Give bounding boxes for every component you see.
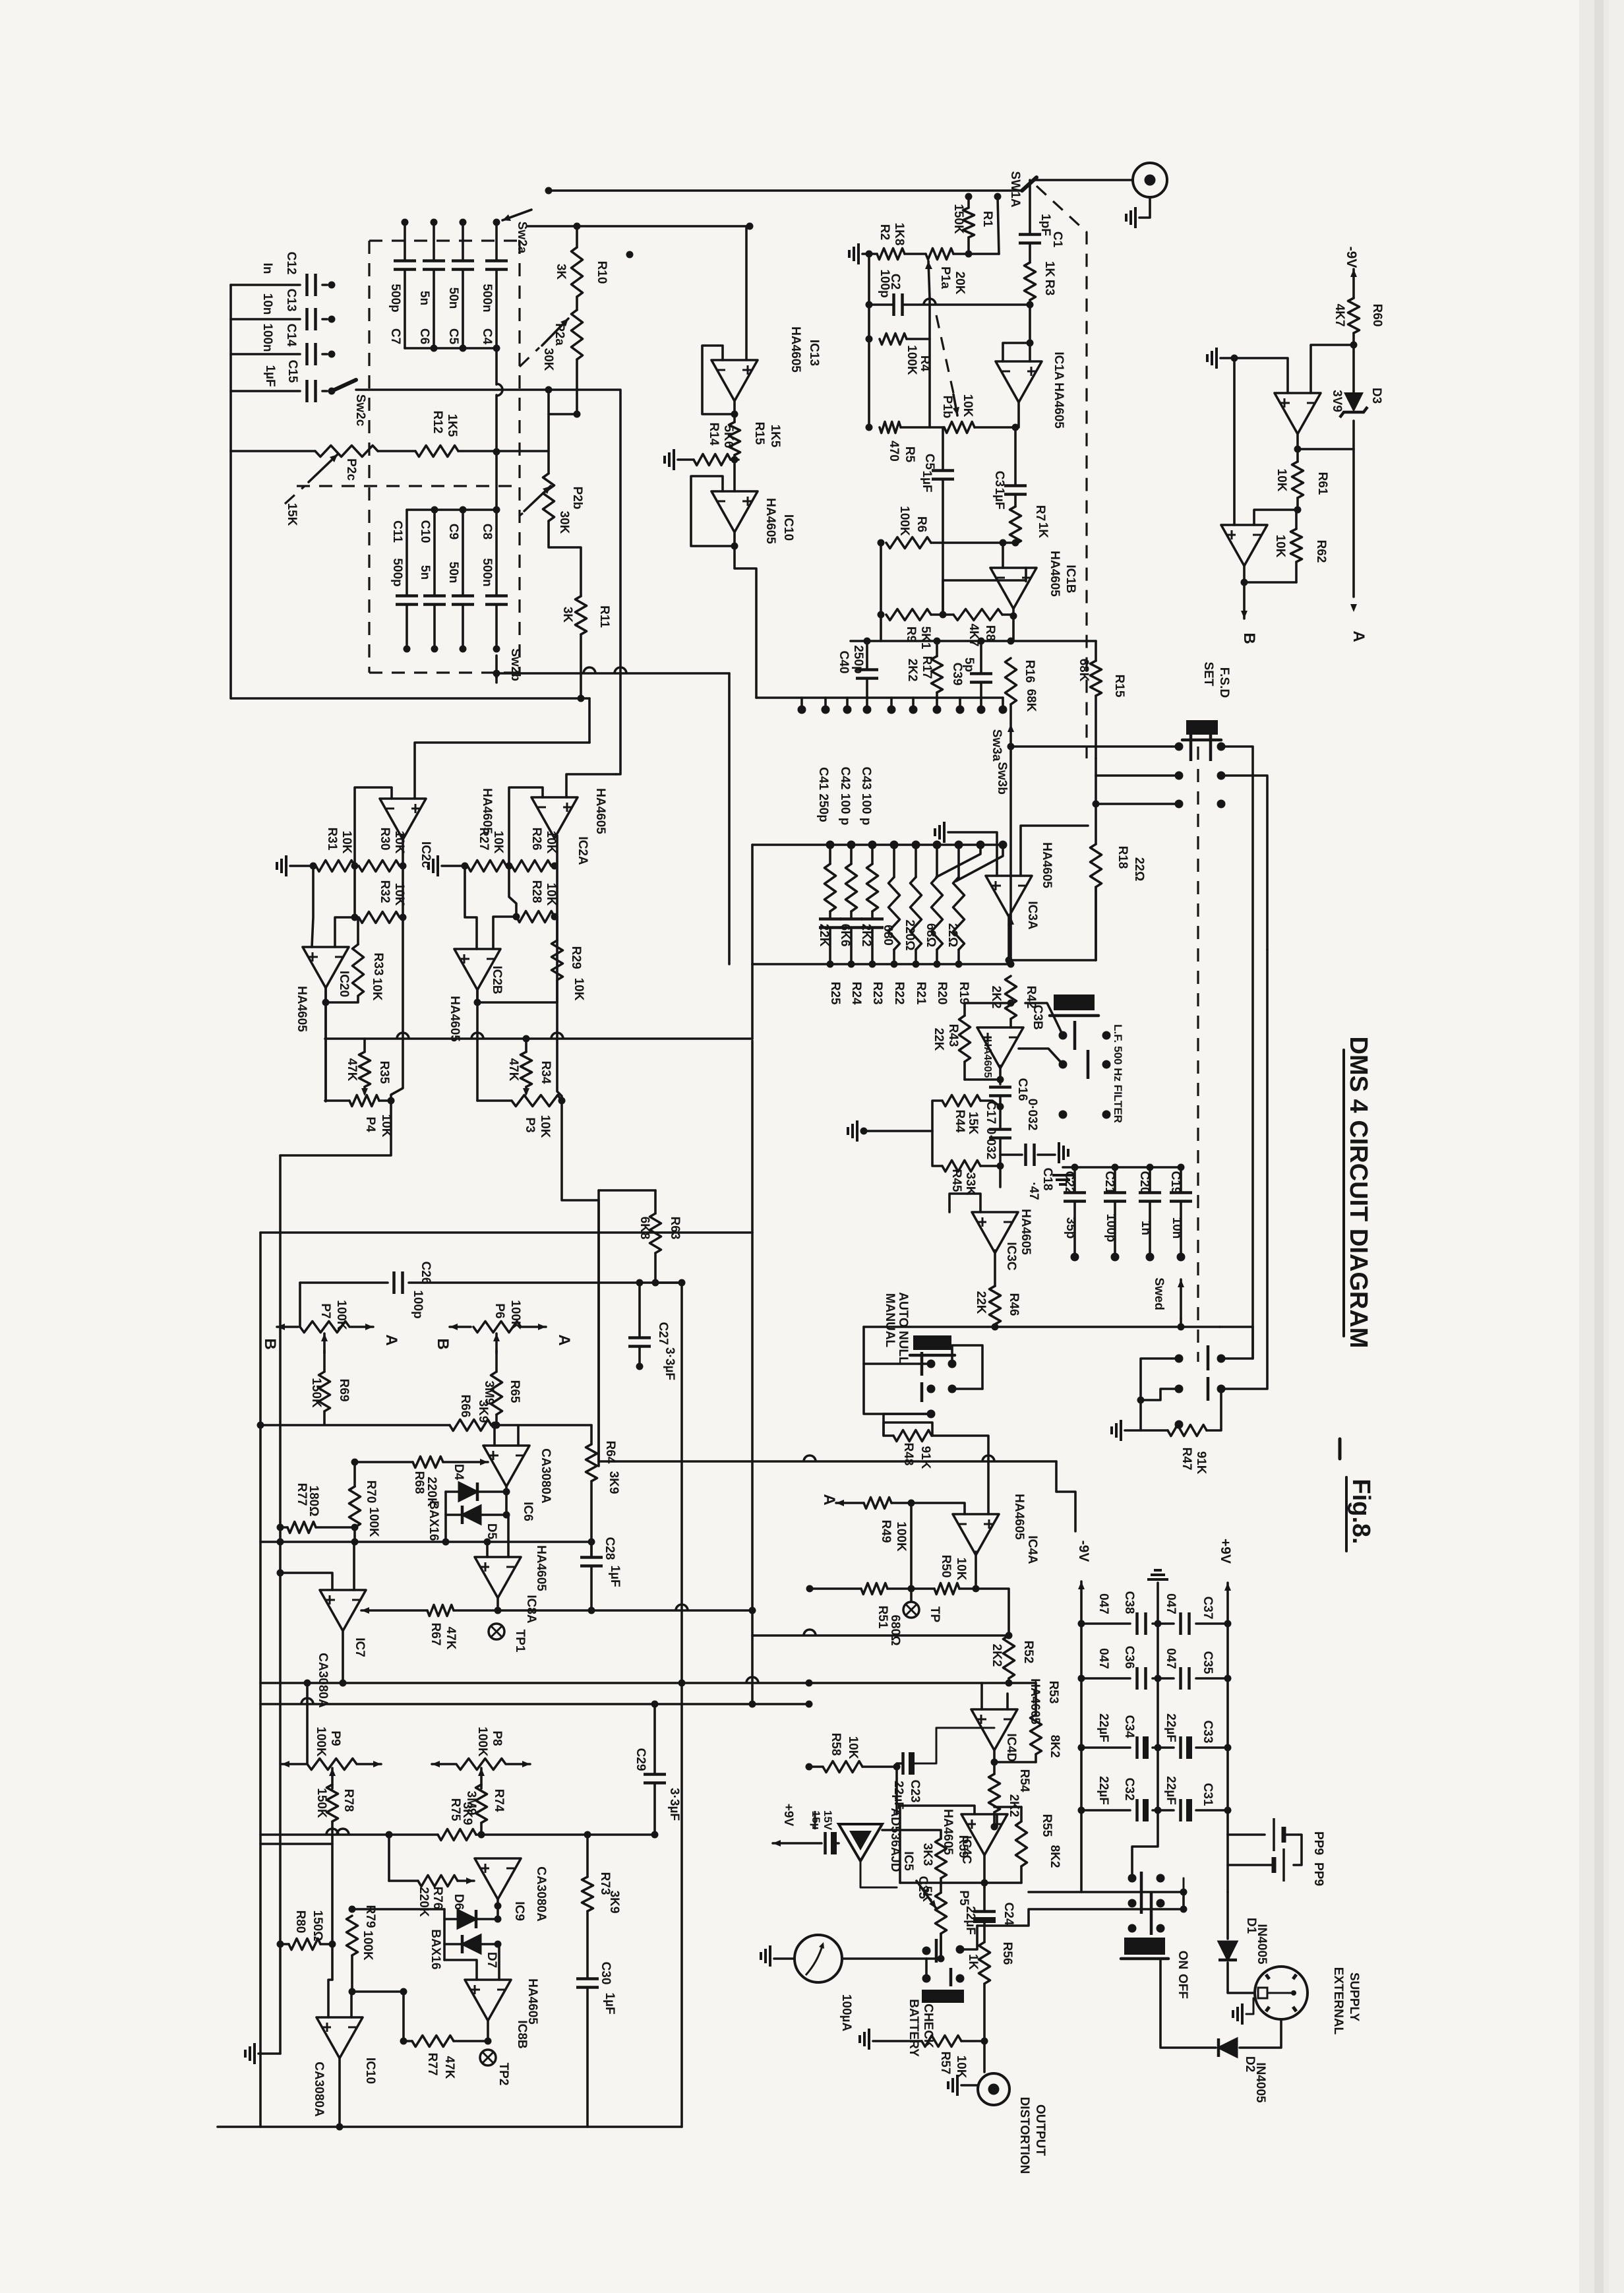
wire batt sw right — [960, 1926, 977, 1949]
svg-text:C23: C23 — [908, 1780, 922, 1803]
potentiometer P2c — [315, 446, 378, 457]
resistor R78 — [327, 1785, 338, 1821]
node batt sw 1L — [922, 1947, 931, 1955]
resistor R14 — [694, 454, 731, 466]
svg-text:1µF: 1µF — [603, 1992, 617, 2014]
wire D4 D5 join — [444, 1492, 447, 1542]
resistor R1 — [967, 197, 970, 208]
svg-text:L.F. 500 Hz FILTER: L.F. 500 Hz FILTER — [1112, 1024, 1124, 1123]
node D7 right — [495, 1941, 502, 1948]
capacitor C5 — [452, 259, 474, 262]
wire null contact 3 — [864, 1364, 931, 1414]
diode D7 — [462, 1935, 481, 1953]
svg-text:5K: 5K — [920, 1886, 934, 1903]
svg-text:HA4605: HA4605 — [448, 996, 462, 1042]
svg-text:3K9: 3K9 — [607, 1891, 621, 1914]
node R6 left — [878, 539, 885, 547]
test point TP2 — [480, 2050, 496, 2065]
svg-text:R59: R59 — [956, 1835, 970, 1858]
capacitor C36 — [1135, 1667, 1139, 1690]
wire to IC6 minus — [491, 1425, 518, 1446]
svg-text:-9V: -9V — [1344, 247, 1359, 268]
node IC10 out — [731, 543, 738, 550]
wire SET FSD return 1 — [1221, 747, 1253, 1359]
svg-text:Swed: Swed — [1152, 1277, 1166, 1310]
wire P1a wiper column — [928, 298, 931, 427]
wire C19 — [1180, 1167, 1182, 1192]
wire loop to IC2C — [231, 451, 589, 698]
switch SET FSD pole 1 — [1189, 732, 1193, 761]
svg-text:R45: R45 — [949, 1169, 963, 1192]
svg-text:R30: R30 — [378, 828, 392, 851]
svg-text:IC2A: IC2A — [576, 836, 589, 865]
node SW3a contact — [863, 706, 872, 714]
resistor R29 — [552, 940, 563, 980]
svg-text:AD536AJD: AD536AJD — [888, 1808, 902, 1872]
wire R12 to P2b — [458, 450, 549, 452]
wire IC20 output — [324, 988, 327, 1002]
svg-text:B: B — [1240, 632, 1258, 644]
op-amp IC6 — [483, 1446, 529, 1486]
capacitor C28 — [580, 1556, 603, 1559]
node R77 R70 — [351, 1524, 359, 1531]
svg-text:22Ω: 22Ω — [946, 923, 959, 947]
wire C18 — [1000, 1153, 1022, 1156]
svg-text:1µF: 1µF — [992, 487, 1006, 509]
wire Sw2c out — [356, 388, 549, 391]
wire C1 — [1029, 180, 1031, 234]
wire IC10b output — [338, 2058, 341, 2127]
wire C28 top — [590, 1542, 593, 1557]
svg-text:100K: 100K — [361, 1930, 375, 1961]
svg-text:10K: 10K — [572, 978, 586, 1001]
svg-text:10K: 10K — [544, 883, 558, 906]
wire null bus right — [1220, 1326, 1253, 1328]
resistor R56 — [983, 1920, 986, 1942]
wire R48 left — [884, 1414, 893, 1436]
svg-text:C18: C18 — [1040, 1168, 1054, 1191]
wire C22 — [1073, 1167, 1076, 1192]
wire D row left — [352, 1908, 444, 1911]
svg-text:HA4605: HA4605 — [1052, 382, 1066, 429]
svg-text:22µF: 22µF — [1097, 1776, 1110, 1805]
svg-text:SUPPLY: SUPPLY — [1347, 1972, 1361, 2022]
wire D6 D7 join — [443, 1909, 446, 1960]
resistor R55 — [1020, 1807, 1023, 1821]
svg-text:R18: R18 — [1116, 846, 1129, 869]
wire to distortion out — [983, 2041, 986, 2072]
arrow R68 to IC6 — [443, 1461, 488, 1463]
wire IC10 output — [733, 532, 736, 546]
wire C3 — [1014, 427, 1017, 485]
svg-text:R77: R77 — [425, 2053, 439, 2076]
capacitor C22 — [1064, 1191, 1086, 1194]
svg-text:EXTERNAL: EXTERNAL — [1331, 1967, 1345, 2035]
svg-text:IC10: IC10 — [363, 2058, 377, 2084]
wire to first opamp minus — [1311, 345, 1354, 393]
svg-text:C10: C10 — [418, 520, 432, 543]
svg-text:R68: R68 — [412, 1471, 426, 1494]
resistor R70 — [353, 1462, 356, 1486]
svg-text:C16: C16 — [1015, 1078, 1029, 1101]
capacitor C27 — [628, 1336, 651, 1339]
node feedback top — [545, 187, 553, 195]
node Sw2b contact C11 — [404, 646, 411, 653]
node Sw2b contact C9 — [460, 646, 467, 653]
wire IC3B output — [999, 1066, 1002, 1084]
svg-text:TP1: TP1 — [513, 1630, 527, 1653]
wire SW3b step b — [956, 845, 1003, 881]
op-amp IC3B — [977, 1027, 1023, 1068]
svg-text:P7: P7 — [318, 1303, 332, 1318]
op-amp IC1B — [990, 568, 1037, 609]
svg-text:3K: 3K — [554, 264, 568, 280]
svg-text:047: 047 — [1097, 1593, 1110, 1614]
wire -9V down — [1081, 1810, 1184, 1892]
wire meter sw left 1 — [1141, 1359, 1179, 1400]
svg-text:IN4005: IN4005 — [1255, 1924, 1269, 1965]
capacitor C43 — [861, 917, 884, 921]
op-amp IC2C — [380, 799, 426, 840]
node C14 out — [328, 351, 336, 358]
svg-text:4K7: 4K7 — [1333, 304, 1346, 327]
op-amp IC3C — [972, 1212, 1018, 1253]
op-amp IC1A — [996, 361, 1042, 402]
svg-text:1K5: 1K5 — [445, 414, 459, 437]
svg-text:-9V: -9V — [1076, 1541, 1091, 1562]
svg-text:1pF: 1pF — [1038, 214, 1052, 236]
op-amp IC9 — [475, 1858, 521, 1899]
svg-text:150Ω: 150Ω — [311, 1911, 324, 1941]
ground IC10b — [253, 2043, 256, 2064]
wire input — [1034, 179, 1132, 181]
svg-text:R54: R54 — [1017, 1769, 1031, 1792]
resistor R31 — [316, 861, 355, 872]
resistor R61 — [1296, 449, 1299, 462]
resistor R60 — [1348, 298, 1360, 333]
svg-text:C5: C5 — [922, 454, 936, 470]
wire IC7 output — [342, 1631, 344, 1683]
resistor R28 — [516, 911, 555, 923]
svg-text:R5: R5 — [903, 446, 917, 463]
svg-text:150K: 150K — [309, 1378, 323, 1408]
wire R33 bottom — [326, 996, 358, 1002]
resistor R46 — [990, 1286, 1001, 1324]
op-amp IC13 — [711, 360, 758, 401]
svg-text:R14: R14 — [707, 423, 721, 446]
svg-text:2K2: 2K2 — [905, 659, 919, 682]
wire R75 to C29 — [481, 1833, 655, 1836]
wire refB to R62 — [1244, 581, 1296, 584]
svg-text:HA4605: HA4605 — [1012, 1494, 1026, 1540]
dashed Sw2 box right — [518, 241, 520, 673]
svg-text:10n: 10n — [260, 293, 274, 315]
capacitor C21 — [1104, 1191, 1126, 1194]
resistor R43 — [963, 1003, 966, 1016]
node refA out — [1294, 446, 1302, 453]
resistor R35 — [363, 1039, 366, 1052]
svg-text:R66: R66 — [458, 1395, 472, 1418]
svg-text:C6: C6 — [417, 328, 431, 344]
svg-text:C30: C30 — [599, 1962, 613, 1985]
capacitor C42 — [840, 917, 862, 921]
resistor R16 — [1006, 658, 1017, 704]
node C20 bottom — [1146, 1253, 1155, 1262]
capacitor C20 — [1139, 1191, 1161, 1194]
svg-text:HA4605: HA4605 — [534, 1545, 548, 1591]
node R49 R50 — [908, 1500, 915, 1507]
node C13 out — [328, 316, 336, 323]
svg-text:F.S.D: F.S.D — [1217, 667, 1231, 698]
wire C2 — [869, 303, 892, 306]
wire contact2 down — [998, 197, 999, 254]
potentiometer P1a — [926, 249, 953, 260]
node IC2C out R30 — [400, 863, 407, 870]
svg-text:HA4605: HA4605 — [526, 1978, 539, 2025]
node IC4A out — [973, 1585, 980, 1593]
svg-text:22Ω: 22Ω — [1132, 857, 1146, 881]
svg-text:P8: P8 — [490, 1730, 504, 1746]
node IC1A fb — [1027, 340, 1034, 347]
potentiometer P7 — [300, 1322, 349, 1333]
capacitor C37 — [1179, 1612, 1182, 1635]
wire SW3b left join — [751, 845, 754, 964]
node R57 out — [981, 2038, 988, 2045]
resistor R32 — [359, 912, 400, 923]
node Sw2a contact C6 — [431, 219, 438, 226]
node SW3b contact — [868, 841, 877, 849]
svg-text:100K: 100K — [905, 345, 918, 375]
resistor R47 — [1168, 1425, 1207, 1436]
wire LF link2 — [1019, 1049, 1063, 1064]
wire D bus down — [402, 1992, 405, 2041]
svg-text:100K: 100K — [894, 1521, 908, 1552]
wire to R64 — [518, 1424, 591, 1426]
svg-text:C26: C26 — [419, 1262, 433, 1285]
node SET FSD contact 3L — [1175, 800, 1184, 809]
wire SW3a rail — [881, 640, 1096, 642]
svg-text:HA4605: HA4605 — [982, 1039, 993, 1078]
capacitor C40 — [856, 668, 878, 671]
svg-text:R8: R8 — [983, 625, 997, 641]
wire +9V rail — [1226, 1624, 1229, 1810]
node SET FSD contact 2R — [1217, 772, 1226, 780]
svg-text:C1: C1 — [1050, 231, 1064, 248]
svg-text:R47: R47 — [1180, 1448, 1193, 1471]
node R27 R26 — [506, 863, 513, 870]
resistor R58 — [823, 1761, 862, 1773]
wire R75 row — [260, 1833, 438, 1836]
svg-text:B: B — [261, 1338, 279, 1349]
switch batt pole 1 — [935, 1939, 938, 1963]
node P5 bottom — [938, 1955, 945, 1963]
wire top rail — [527, 225, 750, 228]
svg-text:IC3A: IC3A — [1025, 901, 1039, 930]
svg-text:R26: R26 — [529, 828, 543, 851]
svg-text:3·3µF: 3·3µF — [663, 1347, 677, 1380]
wire C27 — [638, 1283, 641, 1337]
wire R49 drop — [910, 1503, 913, 1589]
op-amp IC10 — [711, 491, 758, 532]
svg-text:C37: C37 — [1201, 1597, 1215, 1620]
resistor R80 — [289, 1939, 320, 1950]
svg-text:10K: 10K — [846, 1736, 860, 1759]
capacitor C2 — [892, 293, 895, 316]
svg-text:·47: ·47 — [1027, 1182, 1040, 1200]
node null contact 1R — [948, 1360, 957, 1368]
wire R76 feed — [388, 1835, 390, 1881]
arrow R76 to IC9 — [458, 1880, 474, 1882]
capacitor C24 — [973, 1910, 996, 1913]
svg-text:250p: 250p — [851, 645, 865, 673]
wire null node row — [260, 1541, 591, 1543]
svg-text:MANUAL: MANUAL — [883, 1293, 897, 1348]
svg-text:C13: C13 — [284, 289, 298, 312]
svg-text:C27: C27 — [656, 1322, 670, 1345]
ground DIN — [1241, 2003, 1244, 2025]
svg-text:R70: R70 — [364, 1481, 378, 1504]
wire null bus — [864, 1326, 1220, 1328]
svg-text:47K: 47K — [442, 2056, 456, 2079]
wire left bus V395 — [259, 1233, 262, 2127]
svg-text:1K: 1K — [966, 1954, 980, 1971]
node null contact 1L — [927, 1360, 936, 1368]
svg-text:R17: R17 — [920, 656, 934, 679]
resistor R9 — [886, 609, 931, 621]
svg-text:180Ω: 180Ω — [307, 1486, 320, 1517]
wire IC1B minus — [1002, 543, 1004, 568]
wire to IC20 minus — [335, 917, 355, 947]
svg-text:P6: P6 — [493, 1303, 506, 1318]
node Sw2a contact C7 — [402, 219, 409, 226]
svg-text:HA4605: HA4605 — [764, 498, 777, 544]
node SW3a contact — [909, 706, 918, 714]
node onoff 1R — [1157, 1874, 1165, 1883]
svg-text:Sw3b: Sw3b — [995, 762, 1009, 795]
svg-text:Fig.8.: Fig.8. — [1347, 1479, 1375, 1544]
wire R6 R9 column — [880, 543, 882, 641]
P2b wiper arrow — [524, 486, 551, 511]
resistor R24 — [846, 864, 857, 911]
svg-text:C19: C19 — [1168, 1171, 1182, 1194]
wire C21 — [1114, 1167, 1116, 1192]
wire R63 top — [599, 1189, 655, 1192]
svg-text:3K9: 3K9 — [607, 1471, 620, 1494]
capacitor C29 — [644, 1773, 666, 1776]
svg-text:C22: C22 — [1062, 1171, 1076, 1194]
svg-text:DISTORTION: DISTORTION — [1017, 2097, 1031, 2174]
wire to IC2B minus — [493, 917, 516, 949]
node D5 right — [503, 1512, 510, 1519]
potentiometer P8 — [456, 1759, 506, 1770]
diode D1 — [1218, 1941, 1237, 1960]
svg-text:2K2: 2K2 — [990, 1644, 1004, 1667]
wire bottom rail — [218, 2125, 682, 2128]
wire top input line — [549, 189, 1022, 192]
resistor R48 — [893, 1430, 932, 1442]
svg-text:D3: D3 — [1369, 388, 1383, 404]
wire input divider bus — [868, 254, 870, 427]
node R28 left — [513, 913, 520, 921]
wire C30 down — [586, 1988, 589, 2127]
svg-text:1K5: 1K5 — [768, 425, 782, 448]
capacitor C38 — [1135, 1612, 1139, 1635]
wire to P2c — [231, 450, 315, 452]
resistor R27 — [467, 861, 506, 872]
capacitor C16 — [989, 1085, 1011, 1089]
svg-text:IC20: IC20 — [337, 971, 351, 997]
node SET FSD contact 3R — [1217, 800, 1226, 809]
wire R23 top — [871, 845, 874, 864]
node SW3a contact — [822, 706, 830, 714]
svg-text:R58: R58 — [829, 1733, 843, 1756]
connector external supply DIN — [1255, 1967, 1308, 2019]
svg-text:500p: 500p — [388, 284, 402, 312]
battery PP9 no2 — [1284, 1835, 1302, 1865]
node batt sw 1R — [956, 1945, 965, 1954]
resistor R12 — [415, 446, 458, 457]
svg-text:PP9: PP9 — [1311, 1831, 1325, 1855]
svg-text:R15: R15 — [1112, 675, 1126, 698]
arrow node A out — [836, 1502, 864, 1504]
svg-text:22µF: 22µF — [963, 1906, 977, 1935]
node R1 bottom — [965, 251, 973, 258]
wire C29 top — [653, 1704, 656, 1774]
svg-text:R22: R22 — [892, 982, 906, 1005]
capacitor C9 — [452, 594, 474, 597]
wire C9 — [462, 510, 464, 596]
svg-text:22µF: 22µF — [891, 1781, 905, 1810]
potentiometer P1b — [944, 422, 975, 433]
node Sw2a contact C5 — [460, 219, 467, 226]
wire right bus V1034 — [680, 1283, 683, 2127]
svg-text:R7: R7 — [1033, 505, 1047, 521]
Sw2d wiper arrow — [1180, 1279, 1182, 1319]
wire C33 — [1158, 1746, 1174, 1749]
svg-text:R12: R12 — [431, 411, 444, 434]
svg-text:2K2: 2K2 — [1007, 1794, 1021, 1818]
P2a wiper arrow — [542, 319, 568, 346]
resistor R67 — [427, 1605, 454, 1616]
node C15 out — [328, 388, 336, 395]
diode D6 — [458, 1910, 476, 1928]
wire to R52 — [976, 1589, 1009, 1636]
capacitor C17 — [989, 1128, 1011, 1131]
svg-text:R33: R33 — [371, 953, 385, 976]
wire refA to D3 — [1298, 448, 1354, 450]
resistor R23 — [867, 864, 878, 911]
wire P4 out left — [280, 1101, 391, 1155]
node onoff 3R — [1157, 1924, 1165, 1933]
svg-text:R25: R25 — [828, 982, 842, 1005]
svg-text:C35: C35 — [1201, 1651, 1215, 1674]
svg-text:15V: 15V — [822, 1810, 834, 1831]
trimmer battery check — [922, 1990, 964, 2003]
node R2 ground — [626, 251, 634, 259]
resistor R33 — [353, 944, 364, 996]
resistor R19 — [953, 877, 965, 950]
wire IC20 out column — [324, 988, 327, 1101]
node C21 top — [1112, 1164, 1119, 1171]
wire meter right — [842, 1957, 926, 1960]
wire R78 column down — [331, 1844, 334, 1944]
resistor R45 — [942, 1161, 980, 1172]
wire C40 — [866, 641, 868, 669]
wire TP stub — [910, 1589, 913, 1602]
svg-text:R6: R6 — [915, 516, 928, 532]
svg-text:5K6: 5K6 — [721, 425, 735, 448]
wire SW3a contact bus — [756, 696, 1003, 699]
